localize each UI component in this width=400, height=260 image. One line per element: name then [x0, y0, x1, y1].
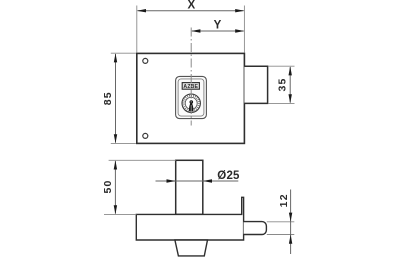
- dimension 85 extension line bottom: [111, 142, 136, 144]
- dimension 85 extension line top: [111, 52, 136, 54]
- dimension 12 label: [278, 193, 290, 207]
- svg-text:35: 35: [276, 77, 288, 91]
- svg-text:50: 50: [102, 179, 114, 193]
- svg-text:85: 85: [102, 91, 114, 105]
- svg-text:X: X: [187, 0, 195, 11]
- svg-text:12: 12: [278, 193, 290, 207]
- svg-text:Y: Y: [214, 20, 222, 32]
- screw hole top: [143, 58, 148, 63]
- dimension X line with arrows: [137, 9, 245, 12]
- cylinder inner circle: [185, 97, 197, 109]
- dimension 35 extension line top: [268, 65, 294, 67]
- dimension Y line with arrows: [191, 29, 244, 32]
- escutcheon outer plate: [176, 76, 207, 118]
- dimension 35 label: [276, 77, 288, 91]
- lock body front view: [137, 53, 245, 143]
- dimension 50 extension line top: [109, 159, 176, 161]
- cylinder stem side view: [176, 160, 203, 214]
- latch bolt side view: [244, 222, 267, 235]
- dimension 50 extension line bottom: [104, 213, 136, 215]
- keyhole silhouette: [189, 100, 193, 111]
- dimension X label: [187, 0, 195, 11]
- dimension diameter 25 leader line with arrows: [156, 179, 239, 182]
- svg-text:Ø25: Ø25: [217, 170, 240, 182]
- lock body side view with back plate: [136, 197, 243, 240]
- dimension diameter 25 label: [217, 170, 240, 182]
- latch housing protrusion right: [244, 66, 267, 103]
- centerline vertical dash-dot: [190, 28, 192, 126]
- dimension X extension line left: [136, 6, 138, 53]
- screw hole bottom: [143, 133, 148, 138]
- escutcheon inner plate: [178, 79, 204, 116]
- dimension 35 extension line bottom: [268, 102, 294, 104]
- dimension 50 label: [102, 179, 114, 193]
- dimension 35 line with arrows: [289, 66, 292, 103]
- dimension 50 line with arrows: [114, 160, 117, 214]
- dimension X extension line right: [243, 6, 245, 53]
- cylinder outer circle: [182, 94, 200, 112]
- key cylinder trapezoid bottom: [175, 240, 208, 256]
- knurled ring: [184, 96, 199, 111]
- dimension 12 extension line bottom: [267, 234, 295, 236]
- dimension Y label: [214, 20, 222, 32]
- dimension 12 line with outside arrows: [289, 190, 292, 255]
- dimension 85 label: [102, 91, 114, 105]
- dimension 12 extension line top: [267, 221, 295, 223]
- dimension 85 line with arrows: [114, 53, 117, 143]
- AZBE label plate: [182, 83, 199, 90]
